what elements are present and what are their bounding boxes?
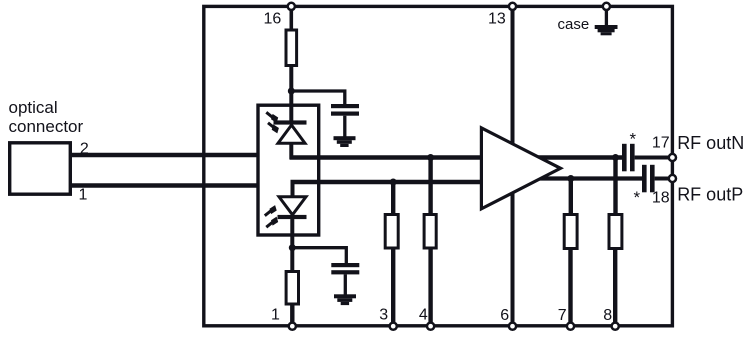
wire: top signal line down to resistor (pin 4), crosses bottom line [428, 158, 432, 215]
wire: top output line down to resistor (pin 8), crosses bottom output line [613, 158, 617, 215]
pin 13 terminal [509, 3, 516, 10]
svg-text:1: 1 [79, 186, 88, 203]
wire: internal vertical rail from pin 13 to pin 6 [511, 6, 515, 326]
capacitor C3 (output coupling, pin 17) [622, 144, 627, 172]
node: pin 1 branch junction [289, 244, 296, 251]
op-amp U1 (differential amplifier) [481, 128, 560, 209]
wire: resistor to pin 8 [613, 249, 617, 327]
wire: resistor to photodiode box [289, 66, 293, 122]
wire: case pin to chassis ground [605, 7, 608, 26]
svg-text:optical: optical [9, 98, 58, 117]
wire: top signal line from photodiode to coupling cap C* (net RF outN) [290, 155, 623, 160]
ground (below C2) [334, 294, 356, 305]
wire: bottom input line down to resistor (pin 3) [391, 182, 395, 214]
svg-text:13: 13 [488, 11, 506, 28]
svg-text:3: 3 [379, 307, 388, 324]
svg-text:4: 4 [419, 307, 428, 324]
photodiode D2 cathode bar (bottom diode) [278, 215, 307, 219]
fiber line 1 (bottom) from optical connector [71, 183, 259, 188]
svg-text:7: 7 [558, 307, 567, 324]
wire: bottom amplifier output line to coupling cap (net RF outP) [536, 176, 642, 180]
resistor (pin 3) [385, 215, 398, 249]
ground (case / chassis) [595, 25, 618, 35]
wire: resistor to pin 7 [568, 249, 572, 327]
svg-text:1: 1 [271, 307, 280, 324]
node: pin 4 tap on top signal line [427, 154, 434, 161]
svg-text:8: 8 [603, 307, 612, 324]
svg-text:6: 6 [500, 307, 509, 324]
capacitor C2 (decoupling, bottom) [331, 263, 359, 267]
case terminal [603, 3, 610, 10]
light arrow into D2 (lower) [266, 217, 278, 228]
pin 1 terminal [289, 323, 296, 330]
light arrow into D1 (upper) [266, 112, 278, 123]
capacitor C1 (bias decoupling, top) [331, 104, 359, 108]
fiber line 2 (top) from optical connector [71, 153, 259, 158]
photodiode D1 (top) triangle [278, 125, 305, 143]
wire: D2 cathode down to pin 1 branch [290, 219, 294, 250]
wire: bottom output line down to resistor (pin 7) [569, 179, 573, 215]
svg-text:2: 2 [80, 141, 89, 158]
pin 3 terminal [390, 323, 397, 330]
wire: resistor to pin 1 [290, 304, 294, 326]
pin 17 terminal [669, 154, 676, 161]
node: bias junction [288, 88, 295, 95]
svg-text:RF outN: RF outN [677, 133, 744, 153]
optical connector box [10, 143, 71, 194]
wire: resistor to pin 3 [391, 248, 395, 326]
resistor (photodiode bias, pin 16) [286, 30, 297, 66]
ground (below C1) [334, 136, 356, 147]
wire: C3 to pin 17 [635, 156, 670, 160]
pin 18 terminal [669, 175, 676, 182]
pin 7 terminal [567, 323, 574, 330]
pin 6 terminal [509, 323, 516, 330]
svg-text:case: case [558, 16, 590, 33]
svg-text:connector: connector [9, 117, 84, 136]
photodiode package box [258, 105, 319, 235]
resistor (pin 1) [286, 272, 298, 305]
wire: junction to decoupling cap C2 [292, 248, 346, 264]
resistor (pin 4) [424, 215, 436, 249]
photodiode D1 cathode bar (top diode) [274, 120, 307, 124]
svg-text:*: * [630, 129, 637, 148]
wire: bottom line up to photodiode D2 [291, 181, 295, 197]
wire: C1 to ground [343, 116, 346, 137]
svg-text:18: 18 [652, 190, 670, 207]
node: pin 8 tap on top output line [612, 154, 619, 161]
wire: junction to decoupling cap C1 [291, 91, 345, 105]
svg-text:16: 16 [264, 11, 282, 28]
svg-text:17: 17 [652, 135, 670, 152]
pin 4 terminal [427, 323, 434, 330]
wire: D1 anode down to top signal line [289, 143, 293, 159]
resistor (pin 7) [564, 215, 577, 249]
svg-text:RF outP: RF outP [677, 184, 743, 204]
wire: bottom amplifier input line from photodiode [291, 180, 485, 185]
node: pin 7 tap on bottom output line [567, 175, 574, 182]
wire: C4 to pin 18 [655, 177, 670, 181]
capacitor C4 (output coupling, pin 18) [642, 165, 647, 193]
wire: pin 16 down to bias resistor [289, 7, 293, 30]
package outline (module boundary box) [204, 6, 673, 325]
pin 8 terminal [612, 323, 619, 330]
light arrow into D1 (lower) [268, 123, 279, 134]
wire: resistor to pin 4 [428, 248, 432, 326]
node: pin 3 tap on bottom input line [390, 179, 397, 186]
wire: C2 to ground [344, 274, 347, 295]
light arrow into D2 (upper) [265, 205, 277, 216]
wire: junction down to resistor (pin 1) [290, 249, 294, 270]
svg-text:*: * [634, 188, 641, 207]
resistor (pin 8) [609, 215, 622, 249]
photodiode D2 (bottom) triangle [279, 197, 306, 215]
pin 16 terminal [288, 3, 295, 10]
